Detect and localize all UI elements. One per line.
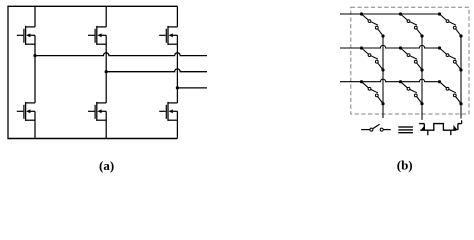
wire: phase output B bbox=[106, 69, 207, 72]
wire: output column 2 bbox=[421, 36, 423, 120]
wire: input row 2 bbox=[340, 45, 440, 48]
wire: input row 3 bbox=[340, 79, 440, 82]
node: phase B junction bbox=[105, 70, 108, 73]
legend equivalent: IGBT T1 (left) bbox=[419, 124, 428, 136]
transistor Q4 (N-MOSFET) bbox=[88, 72, 106, 139]
transistor Q6 (N-MOSFET) bbox=[159, 88, 177, 139]
switch S33 bbox=[438, 80, 463, 105]
switch S11 bbox=[360, 12, 385, 37]
transistor Q1 (N-MOSFET) bbox=[17, 6, 35, 55]
switch S23 bbox=[438, 46, 463, 71]
dashed enclosure of matrix converter bbox=[351, 7, 469, 114]
switch S13 bbox=[438, 12, 463, 37]
legend ideal switch bbox=[361, 124, 391, 131]
wire: phase output A bbox=[35, 53, 207, 56]
node: phase A junction bbox=[33, 54, 36, 57]
switch S22 bbox=[399, 46, 424, 71]
transistor Q5 (N-MOSFET) bbox=[159, 6, 177, 88]
legend equivalent: IGBT T2 (right) bbox=[451, 120, 462, 135]
identical-to symbol bbox=[398, 127, 413, 133]
wire: DC top rail bbox=[8, 5, 177, 7]
svg-text:(a): (a) bbox=[99, 158, 114, 173]
wire: output column 3 bbox=[460, 36, 462, 119]
transistor Q3 (N-MOSFET) bbox=[88, 6, 106, 71]
switch S12 bbox=[399, 12, 424, 37]
wire: DC left side link bbox=[7, 6, 9, 140]
wire: common emitter rail with link bump bbox=[420, 124, 456, 131]
wire: phase output C bbox=[177, 87, 207, 89]
switch S21 bbox=[360, 46, 385, 71]
svg-text:(b): (b) bbox=[397, 157, 413, 172]
transistor Q2 (N-MOSFET) bbox=[17, 56, 35, 139]
wire: input row 1 bbox=[340, 13, 440, 15]
switch S32 bbox=[399, 80, 424, 105]
node: phase C junction bbox=[176, 86, 179, 89]
switch S31 bbox=[360, 80, 385, 105]
wire: DC bottom rail bbox=[8, 138, 177, 140]
wire: output column 1 bbox=[382, 36, 384, 118]
